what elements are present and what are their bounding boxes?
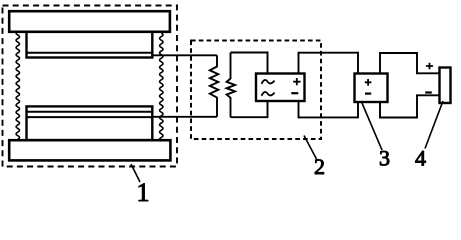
left spring (16, 31, 19, 139)
rectifier minus sign (291, 92, 298, 94)
box3 plus sign (365, 79, 372, 86)
storage battery box 3 (355, 74, 388, 103)
leader line for label 1 (131, 164, 140, 182)
lower bar electrode line a (27, 111, 153, 113)
rectifier tilde ~ lower (262, 92, 275, 96)
wire: rectifier DC- to storage box 3 (299, 101, 359, 117)
svg-text:3: 3 (379, 146, 390, 171)
wire: rectifier DC+ to storage box 3 (299, 53, 359, 74)
wire: bottom electrode to R1 loop (152, 116, 217, 118)
top plate (upper mass) (9, 11, 170, 32)
wire: box3 - to load box 4 (380, 95, 440, 117)
svg-text:1: 1 (137, 178, 150, 207)
upper piezo bar (27, 32, 153, 58)
upper bar electrode line (27, 52, 153, 54)
box3 minus sign (365, 92, 371, 94)
wire: top electrode to R1 loop (152, 54, 217, 56)
leader line for label 3 (362, 103, 382, 150)
svg-text:4: 4 (415, 146, 426, 171)
load box 4 (440, 68, 451, 104)
bottom plate (base) (9, 140, 170, 160)
load minus sign (425, 91, 432, 93)
resistor R2 (left side of second loop, with leads) (227, 53, 235, 118)
wire: R2 top to rectifier AC input (231, 53, 268, 74)
svg-text:2: 2 (314, 154, 325, 179)
dashed enclosure box 1 (transducer unit) (3, 6, 178, 167)
load plus sign (426, 63, 433, 70)
rectifier plus sign (293, 78, 300, 85)
dashed enclosure box 2 (interface circuit) (191, 41, 321, 140)
lower piezo bar (27, 106, 153, 140)
resistor R1 (right side of first loop, with leads) (210, 55, 219, 117)
right spring (160, 33, 163, 141)
leader line for label 2 (304, 136, 317, 161)
lower bar electrode line b (27, 116, 153, 118)
rectifier (AC-DC converter) box (256, 74, 305, 102)
wire: box3 + to load box 4 (380, 53, 440, 74)
leader line for label 4 (425, 101, 443, 149)
rectifier tilde ~ upper (262, 80, 275, 84)
wire: R2 bottom to rectifier AC input (231, 101, 268, 117)
